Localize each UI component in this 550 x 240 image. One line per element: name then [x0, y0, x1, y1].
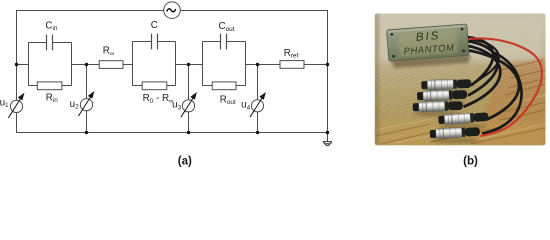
junction dots bottom rail [85, 131, 329, 134]
voltmeter u2 circle [80, 99, 92, 111]
resistor Rinf box [99, 61, 123, 69]
svg-text:Cin: Cin [45, 20, 57, 32]
arrow u1 [8, 94, 23, 118]
bottom strip golden [375, 123, 546, 146]
arrow u2 [78, 92, 93, 116]
dark grain streaks bottom [376, 60, 546, 144]
AC source U1 [164, 2, 181, 19]
svg-text:u2: u2 [70, 99, 79, 111]
connector plug 3 [413, 101, 463, 113]
resistor Rin box [37, 82, 62, 90]
svg-text:u3: u3 [172, 100, 181, 112]
block input electrode frame [29, 43, 72, 86]
black cable 4 [467, 50, 519, 120]
resistor Rout box [212, 82, 236, 90]
capacitor C plates [152, 34, 158, 50]
voltmeter u3 circle [182, 100, 194, 112]
voltmeter u4 circle [251, 100, 263, 112]
connector plug 2 [417, 89, 467, 101]
left edge vignette [375, 13, 379, 145]
svg-text:C: C [151, 20, 158, 31]
wash upper area [375, 13, 546, 61]
block output electrode frame [203, 42, 246, 86]
wire u3 branch [188, 65, 190, 133]
arrow u4 [250, 93, 265, 117]
red cable [465, 38, 542, 136]
black cable 3 [464, 46, 501, 107]
black cable extra strand [467, 39, 499, 84]
voltmeter u1 circle [10, 100, 22, 112]
connector plug 5 [430, 126, 480, 139]
svg-text:R0 - R∞: R0 - R∞ [143, 93, 174, 105]
resistor Rref box [280, 61, 304, 69]
svg-text:BIS: BIS [415, 30, 440, 44]
wire u4 branch [257, 65, 259, 133]
black cable 1 [467, 37, 494, 86]
svg-text:Rout: Rout [220, 94, 236, 106]
wire main line segments [16, 64, 328, 66]
wire u2 branch [86, 65, 88, 133]
photo wooden background [375, 13, 546, 145]
block tissue Cole frame [133, 42, 176, 86]
capacitor Cout plates [221, 34, 227, 50]
svg-text:Rin: Rin [46, 92, 58, 104]
svg-text:u4: u4 [241, 100, 250, 112]
metal box BIS PHANTOM [387, 24, 470, 61]
capacitor Cin plates [47, 35, 53, 51]
svg-text:R∞: R∞ [103, 46, 115, 58]
svg-text:Cout: Cout [219, 21, 235, 33]
connector plug 4 [438, 112, 489, 125]
svg-text:Rref: Rref [284, 48, 299, 60]
AC source sine symbol [167, 9, 175, 12]
black cable 5 from bottom connector [482, 52, 521, 134]
box shadow [391, 53, 471, 68]
orange wood right [474, 58, 546, 146]
wire top rail [16, 10, 328, 12]
connector shadows [413, 89, 487, 144]
junction dots main line [15, 63, 329, 66]
svg-text:u1: u1 [0, 97, 9, 109]
connector plug 1 [421, 79, 471, 91]
svg-text:(a): (a) [178, 154, 192, 167]
ground symbol [323, 142, 332, 146]
wire right vertical [327, 10, 329, 141]
wire bottom rail [16, 132, 328, 134]
black cable 2 [467, 41, 498, 96]
wire left vertical [16, 10, 18, 133]
resistor R0-Rinf box [142, 82, 167, 90]
svg-text:(b): (b) [463, 154, 478, 167]
arrow u3 [181, 93, 196, 117]
